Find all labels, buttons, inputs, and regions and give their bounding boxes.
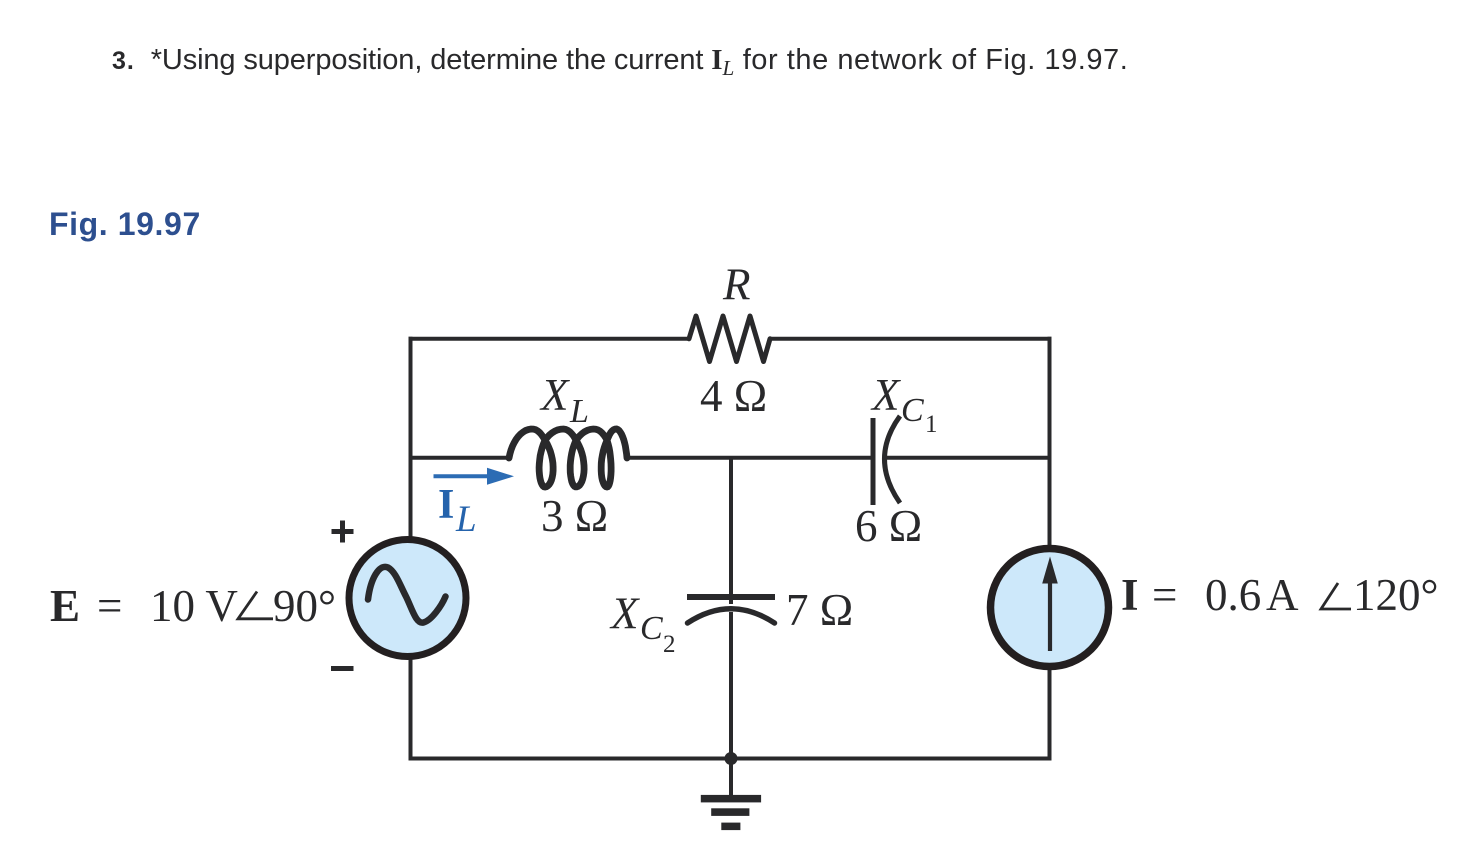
svg-text:E: E	[50, 581, 80, 631]
svg-text:X: X	[870, 370, 901, 420]
svg-text:120°: 120°	[1353, 570, 1439, 620]
wire: inductor to C1 flat plate	[626, 456, 871, 460]
svg-text:4 Ω: 4 Ω	[700, 371, 767, 421]
svg-text:C: C	[640, 610, 663, 647]
plus sign	[332, 521, 354, 543]
sine wave inside E	[368, 567, 446, 623]
wire: I source to bottom wire	[1048, 665, 1052, 759]
wire: below E source to bottom wire	[409, 656, 413, 761]
svg-text:1: 1	[925, 411, 938, 438]
ground bar 1	[701, 795, 761, 803]
ground bar 3	[721, 823, 740, 831]
ground bar 2	[711, 808, 749, 816]
figure caption Fig. 19.97	[49, 206, 201, 243]
svg-text:=: =	[1152, 570, 1177, 620]
current source arrow	[1048, 582, 1052, 651]
svg-text:L: L	[455, 499, 477, 540]
svg-text:I: I	[438, 482, 454, 528]
wire: right vertical top wire to I source	[1048, 337, 1052, 550]
svg-text:C: C	[901, 392, 924, 429]
resistor R zigzag	[689, 316, 770, 362]
svg-text:90°: 90°	[273, 581, 336, 631]
svg-text:0.6: 0.6	[1205, 570, 1261, 620]
junction dot	[725, 752, 738, 765]
capacitor C1 flat plate	[871, 418, 876, 505]
wire: top horizontal right of resistor	[770, 337, 1052, 341]
capacitor C2 curved plate	[688, 609, 775, 623]
angle symbol for E	[238, 592, 273, 619]
svg-text:2: 2	[663, 631, 676, 658]
svg-text:R: R	[722, 260, 751, 310]
IL blue arrow	[434, 474, 489, 478]
svg-text:=: =	[97, 581, 122, 631]
wire: bottom horizontal	[409, 757, 1052, 761]
wire: middle vertical from second row to C2	[729, 458, 733, 604]
current source I circle	[991, 549, 1109, 667]
svg-text:A: A	[1266, 570, 1299, 620]
capacitor C2 flat plate	[687, 594, 775, 600]
svg-text:X: X	[539, 370, 570, 420]
voltage source E circle	[349, 540, 466, 657]
wire: top horizontal left of resistor	[409, 337, 690, 341]
svg-text:3 Ω: 3 Ω	[541, 491, 608, 541]
svg-text:7 Ω: 7 Ω	[786, 585, 853, 635]
angle symbol for I	[1321, 583, 1351, 609]
svg-text:I: I	[1121, 570, 1139, 620]
svg-text:L: L	[569, 393, 589, 430]
inductor XL coil	[509, 429, 627, 487]
wire: ground stub	[729, 759, 733, 796]
problem statement text	[112, 44, 1128, 77]
wire: C1 arc to right vertical	[884, 456, 1052, 460]
svg-text:X: X	[609, 589, 640, 639]
svg-text:10 V: 10 V	[150, 581, 238, 631]
svg-text:6 Ω: 6 Ω	[855, 501, 922, 551]
wire: top-left vertical from top wire to E source	[409, 337, 413, 540]
wire: C2 to bottom junction	[729, 612, 733, 759]
wire: second-row left segment to inductor	[409, 456, 511, 460]
capacitor C1 curved plate	[885, 416, 901, 503]
minus sign	[331, 666, 354, 671]
